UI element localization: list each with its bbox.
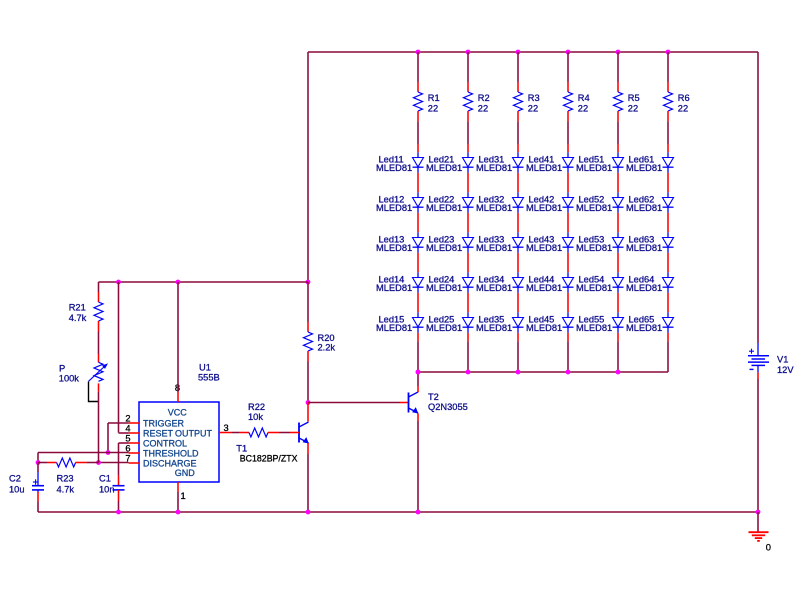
svg-text:22: 22 (528, 103, 538, 113)
svg-text:22: 22 (478, 103, 488, 113)
svg-text:12V: 12V (777, 365, 794, 375)
capacitor C2 10u (9, 463, 44, 502)
svg-text:555B: 555B (198, 373, 220, 383)
wire LED matrix bottom bus (418, 371, 668, 373)
wire C1 to ground bus (118, 501, 120, 512)
svg-text:R23: R23 (57, 474, 74, 484)
node LED bus junction (566, 370, 571, 375)
wire column 3 LED link 4 (517, 293, 519, 313)
svg-text:0: 0 (766, 543, 771, 553)
transistor T2 Q2N3055 (409, 392, 468, 414)
svg-text:R20: R20 (318, 333, 335, 343)
wire column 2 LED link 3 (467, 253, 469, 272)
LED Led15 MLED81 (376, 312, 424, 333)
wire column 3 LED link 3 (517, 253, 519, 272)
svg-text:MLED81: MLED81 (426, 283, 462, 293)
svg-text:MLED81: MLED81 (476, 283, 512, 293)
svg-text:MLED81: MLED81 (576, 323, 612, 333)
resistor R3 (514, 82, 540, 121)
port label DISCHARGE (143, 458, 197, 468)
wire reset to VCC rail (119, 282, 129, 433)
wire column 4 LED link 4 (567, 293, 569, 313)
svg-text:3: 3 (224, 423, 229, 433)
svg-text:RESET: RESET (143, 428, 174, 438)
svg-text:22: 22 (428, 103, 438, 113)
svg-text:R2: R2 (478, 93, 490, 103)
wire T1 collector (307, 403, 309, 422)
wire left supply riser (307, 52, 309, 282)
wire T1 emitter to ground bus (307, 443, 309, 512)
wire column 6 LED link 1 (667, 173, 669, 193)
svg-text:R5: R5 (628, 93, 640, 103)
port label CONTROL (143, 438, 187, 448)
wire ground bus (38, 511, 758, 513)
pin 4 RESET (125, 423, 139, 433)
svg-text:1: 1 (181, 491, 186, 501)
wire column 6 to bottom bus (667, 333, 669, 372)
wire P to discharge node (98, 392, 100, 463)
svg-text:MLED81: MLED81 (476, 203, 512, 213)
LED Led54 MLED81 (576, 272, 624, 293)
LED Led55 MLED81 (576, 312, 624, 333)
wire column 6 feed (667, 52, 669, 82)
wire column 2 LED link 4 (467, 293, 469, 313)
svg-text:R6: R6 (678, 93, 690, 103)
svg-text:2: 2 (125, 413, 130, 423)
resistor R22 10k (232, 402, 299, 437)
LED Led34 MLED81 (476, 272, 524, 293)
svg-text:R4: R4 (578, 93, 590, 103)
node pin1 ground junction (176, 510, 181, 515)
wire column 6 LED link 4 (667, 293, 669, 313)
pin 8 VCC (175, 383, 180, 402)
svg-text:2.2k: 2.2k (318, 343, 336, 353)
wire column 4 LED link 1 (567, 173, 569, 193)
node VCC rail tap pin4 (116, 280, 121, 285)
svg-text:MLED81: MLED81 (526, 283, 562, 293)
LED Led64 MLED81 (626, 272, 674, 293)
svg-text:MLED81: MLED81 (426, 203, 462, 213)
wire column 5 LED link 4 (617, 293, 619, 313)
capacitor C1 10n (99, 474, 125, 501)
wire column 6 LED link 3 (667, 253, 669, 272)
svg-text:MLED81: MLED81 (576, 163, 612, 173)
wire T2 collector (417, 372, 419, 392)
svg-text:MLED81: MLED81 (426, 163, 462, 173)
node T1 emitter ground junction (306, 510, 311, 515)
svg-text:22: 22 (578, 103, 588, 113)
svg-text:T1: T1 (236, 443, 247, 453)
svg-text:22: 22 (628, 103, 638, 113)
svg-text:MLED81: MLED81 (376, 243, 412, 253)
LED Led53 MLED81 (576, 232, 624, 253)
svg-text:VCC: VCC (168, 407, 188, 417)
LED Led23 MLED81 (426, 232, 474, 253)
wire column 3 LED link 1 (517, 173, 519, 193)
LED Led63 MLED81 (626, 232, 674, 253)
node LED bus junction (516, 370, 521, 375)
svg-text:MLED81: MLED81 (376, 163, 412, 173)
wire column 4 resistor to LED string (567, 121, 569, 152)
LED Led21 MLED81 (426, 152, 474, 173)
transistor T1 BC182BP (236, 422, 308, 464)
svg-text:MLED81: MLED81 (426, 323, 462, 333)
svg-text:BC182BP/ZTX: BC182BP/ZTX (240, 454, 298, 464)
wire threshold line (38, 453, 129, 463)
LED Led14 MLED81 (376, 272, 424, 293)
LED Led51 MLED81 (576, 152, 624, 173)
node LED bus junction (416, 370, 421, 375)
svg-text:C2: C2 (9, 474, 21, 484)
svg-text:MLED81: MLED81 (576, 283, 612, 293)
svg-text:MLED81: MLED81 (576, 203, 612, 213)
wire R20 to T1 collector node (307, 362, 309, 403)
node T2 emitter ground junction (416, 510, 421, 515)
svg-text:MLED81: MLED81 (526, 203, 562, 213)
LED Led43 MLED81 (526, 232, 574, 253)
node trigger-threshold junction (106, 450, 111, 455)
svg-text:MLED81: MLED81 (526, 163, 562, 173)
port label OUTPUT (175, 428, 213, 438)
wire column 1 LED link 3 (417, 253, 419, 272)
LED Led65 MLED81 (626, 312, 674, 333)
svg-text:10k: 10k (248, 412, 263, 422)
LED Led13 MLED81 (376, 232, 424, 253)
node discharge junction (96, 460, 101, 465)
wire column 5 LED link 2 (617, 213, 619, 233)
LED Led42 MLED81 (526, 192, 574, 213)
wire VCC rail to 555 area (99, 281, 309, 283)
svg-text:Q2N3055: Q2N3055 (428, 402, 468, 412)
wire control to C1 (119, 443, 129, 475)
node top bus column 1 (416, 50, 421, 55)
wire column 4 LED link 3 (567, 253, 569, 272)
LED Led12 MLED81 (376, 192, 424, 213)
svg-text:MLED81: MLED81 (426, 243, 462, 253)
LED Led33 MLED81 (476, 232, 524, 253)
wire column 5 LED link 3 (617, 253, 619, 272)
wire column 5 LED link 1 (617, 173, 619, 193)
svg-text:C1: C1 (99, 474, 111, 484)
port label VCC (168, 407, 188, 417)
wire column 3 to bottom bus (517, 333, 519, 372)
node ground bus right junction (756, 510, 761, 515)
LED Led44 MLED81 (526, 272, 574, 293)
svg-text:OUTPUT: OUTPUT (175, 428, 213, 438)
svg-text:MLED81: MLED81 (376, 323, 412, 333)
wire pin 1 to ground bus (177, 492, 179, 512)
resistor R4 (564, 82, 590, 121)
resistor R1 (414, 82, 440, 121)
wire column 5 feed (617, 52, 619, 82)
svg-text:MLED81: MLED81 (526, 323, 562, 333)
node LED bus junction (616, 370, 621, 375)
svg-text:MLED81: MLED81 (376, 283, 412, 293)
node top bus column 2 (466, 50, 471, 55)
svg-text:MLED81: MLED81 (626, 283, 662, 293)
ground symbol node 0 (749, 512, 771, 553)
svg-text:MLED81: MLED81 (376, 203, 412, 213)
port label THRESHOLD (143, 448, 199, 458)
LED Led52 MLED81 (576, 192, 624, 213)
pin 2 TRIGGER (125, 413, 139, 423)
resistor R23 4.7k (38, 458, 99, 495)
node T2 collector junction (416, 370, 421, 375)
wire column 4 feed (567, 52, 569, 82)
wire column 2 resistor to LED string (467, 121, 469, 152)
node timing node (36, 460, 41, 465)
svg-text:MLED81: MLED81 (476, 163, 512, 173)
svg-text:MLED81: MLED81 (626, 243, 662, 253)
svg-text:4.7k: 4.7k (69, 313, 87, 323)
svg-text:MLED81: MLED81 (626, 203, 662, 213)
wire right supply drop to battery (757, 52, 759, 343)
wire column 1 to bottom bus (417, 333, 419, 372)
svg-text:P: P (59, 363, 65, 373)
svg-text:TRIGGER: TRIGGER (143, 418, 185, 428)
resistor R5 (614, 82, 640, 121)
LED Led61 MLED81 (626, 152, 674, 173)
wire column 1 LED link 1 (417, 173, 419, 193)
LED Led32 MLED81 (476, 192, 524, 213)
op-amp U1 555B box (139, 362, 220, 482)
svg-text:R1: R1 (428, 93, 440, 103)
wire top supply bus (308, 51, 758, 53)
wire column 2 feed (467, 52, 469, 82)
node C1 ground junction (116, 510, 121, 515)
wire R21 to P (98, 332, 100, 355)
svg-text:GND: GND (175, 468, 196, 478)
node VCC rail tap pin8 (176, 280, 181, 285)
port label GND (175, 468, 196, 478)
wire base drive to T2 (308, 402, 408, 404)
svg-text:R22: R22 (248, 402, 265, 412)
resistor R2 (464, 82, 490, 121)
svg-text:R3: R3 (528, 93, 540, 103)
potentiometer P 100k (59, 354, 108, 402)
node base drive junction (306, 400, 311, 405)
svg-text:10n: 10n (99, 485, 115, 495)
wire battery minus to ground bus (757, 372, 759, 512)
LED Led24 MLED81 (426, 272, 474, 293)
svg-text:22: 22 (678, 103, 688, 113)
wire column 1 feed (417, 52, 419, 82)
LED Led22 MLED81 (426, 192, 474, 213)
svg-text:100k: 100k (59, 373, 80, 383)
svg-text:DISCHARGE: DISCHARGE (143, 458, 197, 468)
LED Led35 MLED81 (476, 312, 524, 333)
port label TRIGGER (143, 418, 185, 428)
LED Led31 MLED81 (476, 152, 524, 173)
wire column 4 to bottom bus (567, 333, 569, 372)
pin 5 CONTROL (125, 433, 139, 443)
svg-text:MLED81: MLED81 (576, 243, 612, 253)
wire C2 to ground bus (37, 502, 39, 513)
wire column 6 resistor to LED string (667, 121, 669, 152)
LED Led62 MLED81 (626, 192, 674, 213)
svg-text:CONTROL: CONTROL (143, 438, 187, 448)
wire column 1 LED link 2 (417, 213, 419, 233)
wire column 2 LED link 1 (467, 173, 469, 193)
svg-text:THRESHOLD: THRESHOLD (143, 448, 199, 458)
svg-text:T2: T2 (428, 392, 439, 402)
svg-text:V1: V1 (777, 355, 788, 365)
svg-text:4.7k: 4.7k (57, 485, 75, 495)
wire column 3 LED link 2 (517, 213, 519, 233)
svg-text:MLED81: MLED81 (476, 243, 512, 253)
wire column 3 resistor to LED string (517, 121, 519, 152)
node top bus column 5 (616, 50, 621, 55)
node top bus column 6 (666, 50, 671, 55)
wire VCC rail to pin 8 (177, 282, 179, 392)
pin 6 THRESHOLD (125, 443, 139, 453)
wire column 2 to bottom bus (467, 333, 469, 372)
wire column 2 LED link 2 (467, 213, 469, 233)
node top bus column 3 (516, 50, 521, 55)
node VCC rail junction (306, 280, 311, 285)
node LED bus junction (466, 370, 471, 375)
wire discharge line (99, 462, 129, 464)
svg-text:MLED81: MLED81 (476, 323, 512, 333)
svg-text:10u: 10u (9, 485, 25, 495)
port label RESET (143, 428, 174, 438)
wire trigger loop (108, 423, 129, 453)
LED Led11 MLED81 (376, 152, 424, 173)
resistor R6 (664, 82, 690, 121)
battery V1 12V (748, 343, 794, 375)
wire T2 emitter to ground bus (417, 414, 419, 513)
wire column 1 LED link 4 (417, 293, 419, 313)
LED Led45 MLED81 (526, 312, 574, 333)
svg-text:5: 5 (125, 433, 130, 443)
node top bus column 4 (566, 50, 571, 55)
svg-text:MLED81: MLED81 (626, 163, 662, 173)
wire column 6 LED link 2 (667, 213, 669, 233)
pin 7 DISCHARGE (125, 453, 139, 463)
resistor R21 4.7k (69, 282, 103, 332)
wire column 1 resistor to LED string (417, 121, 419, 152)
LED Led41 MLED81 (526, 152, 574, 173)
svg-text:MLED81: MLED81 (526, 243, 562, 253)
resistor R20 2.2k (304, 282, 336, 362)
wire column 4 LED link 2 (567, 213, 569, 233)
wire column 5 to bottom bus (617, 333, 619, 372)
svg-text:4: 4 (125, 423, 130, 433)
LED Led25 MLED81 (426, 312, 474, 333)
wire column 5 resistor to LED string (617, 121, 619, 152)
svg-text:R21: R21 (69, 303, 86, 313)
pin 1 GND (178, 482, 186, 501)
pin 3 OUTPUT (219, 423, 232, 433)
svg-text:MLED81: MLED81 (626, 323, 662, 333)
wire column 3 feed (517, 52, 519, 82)
svg-text:U1: U1 (199, 362, 211, 372)
